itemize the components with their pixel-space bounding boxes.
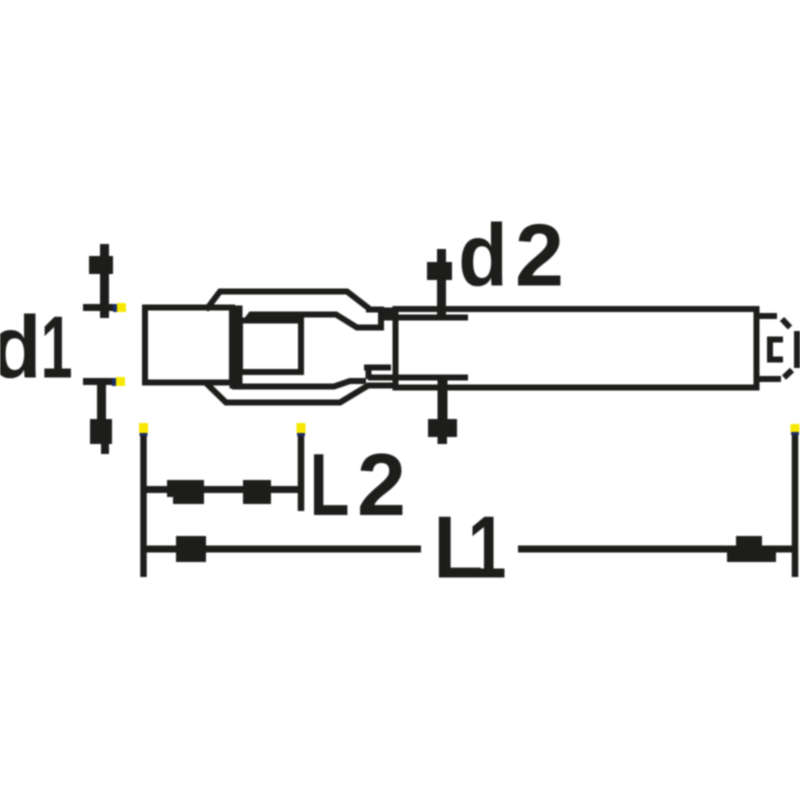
shank right edge / square left edge merged bar xyxy=(230,306,243,389)
joint top neck connector xyxy=(384,308,395,317)
L2 right extension line xyxy=(298,425,305,511)
L1 dimension line left part xyxy=(143,546,421,553)
L2 left extension yellow tip xyxy=(139,423,148,436)
label L2 xyxy=(310,435,406,534)
label d2 xyxy=(458,205,564,304)
joint top neck xyxy=(366,310,397,331)
L2 arrow blob right xyxy=(243,480,271,504)
L1 arrow blob left xyxy=(176,536,206,562)
tip arc dash upper xyxy=(782,319,790,328)
d1 bottom tick xyxy=(83,378,118,385)
L1 right extension yellow tip xyxy=(791,424,800,435)
d2 top arrow xyxy=(427,249,452,320)
joint inner square xyxy=(240,321,301,373)
tip arc dash lower xyxy=(784,370,792,378)
joint outer bottom contour xyxy=(206,383,396,403)
L1 dimension line right part xyxy=(518,546,792,553)
shaft xyxy=(396,309,757,388)
label L1 xyxy=(433,498,506,598)
tip bottom stub xyxy=(757,376,781,382)
d1 bottom tick yellow end xyxy=(112,377,125,386)
L2 arrow blob left xyxy=(167,480,204,504)
L2 dimension line xyxy=(143,486,301,493)
svg-text:d: d xyxy=(458,205,507,304)
shank rectangle xyxy=(145,308,232,383)
joint outer top contour xyxy=(206,292,369,311)
svg-text:2: 2 xyxy=(357,435,406,534)
L1 arrow blob right xyxy=(727,536,776,562)
d2 bottom arrow xyxy=(428,378,457,444)
svg-text:d: d xyxy=(0,299,41,397)
L1 right extension line xyxy=(792,426,799,577)
shaft inner top line xyxy=(394,315,468,321)
svg-text:1: 1 xyxy=(41,298,73,396)
tip top stub xyxy=(757,313,777,319)
fork top line xyxy=(246,315,381,328)
L2 right extension yellow tip xyxy=(297,423,306,436)
d1 top tick xyxy=(83,304,118,311)
d1 top tick yellow end xyxy=(113,303,126,312)
label d1 xyxy=(0,298,73,397)
d1 bottom arrow xyxy=(90,382,112,454)
joint bottom neck step xyxy=(364,365,391,379)
svg-text:L: L xyxy=(310,437,350,535)
d1 top arrow xyxy=(89,244,113,318)
tip arc dash right xyxy=(794,331,800,368)
tip inner C xyxy=(770,340,783,360)
svg-text:2: 2 xyxy=(515,206,564,305)
svg-text:1: 1 xyxy=(468,498,507,597)
fork bottom line xyxy=(232,381,366,387)
L2 left extension line xyxy=(140,425,147,577)
shaft inner bottom line xyxy=(368,375,468,381)
